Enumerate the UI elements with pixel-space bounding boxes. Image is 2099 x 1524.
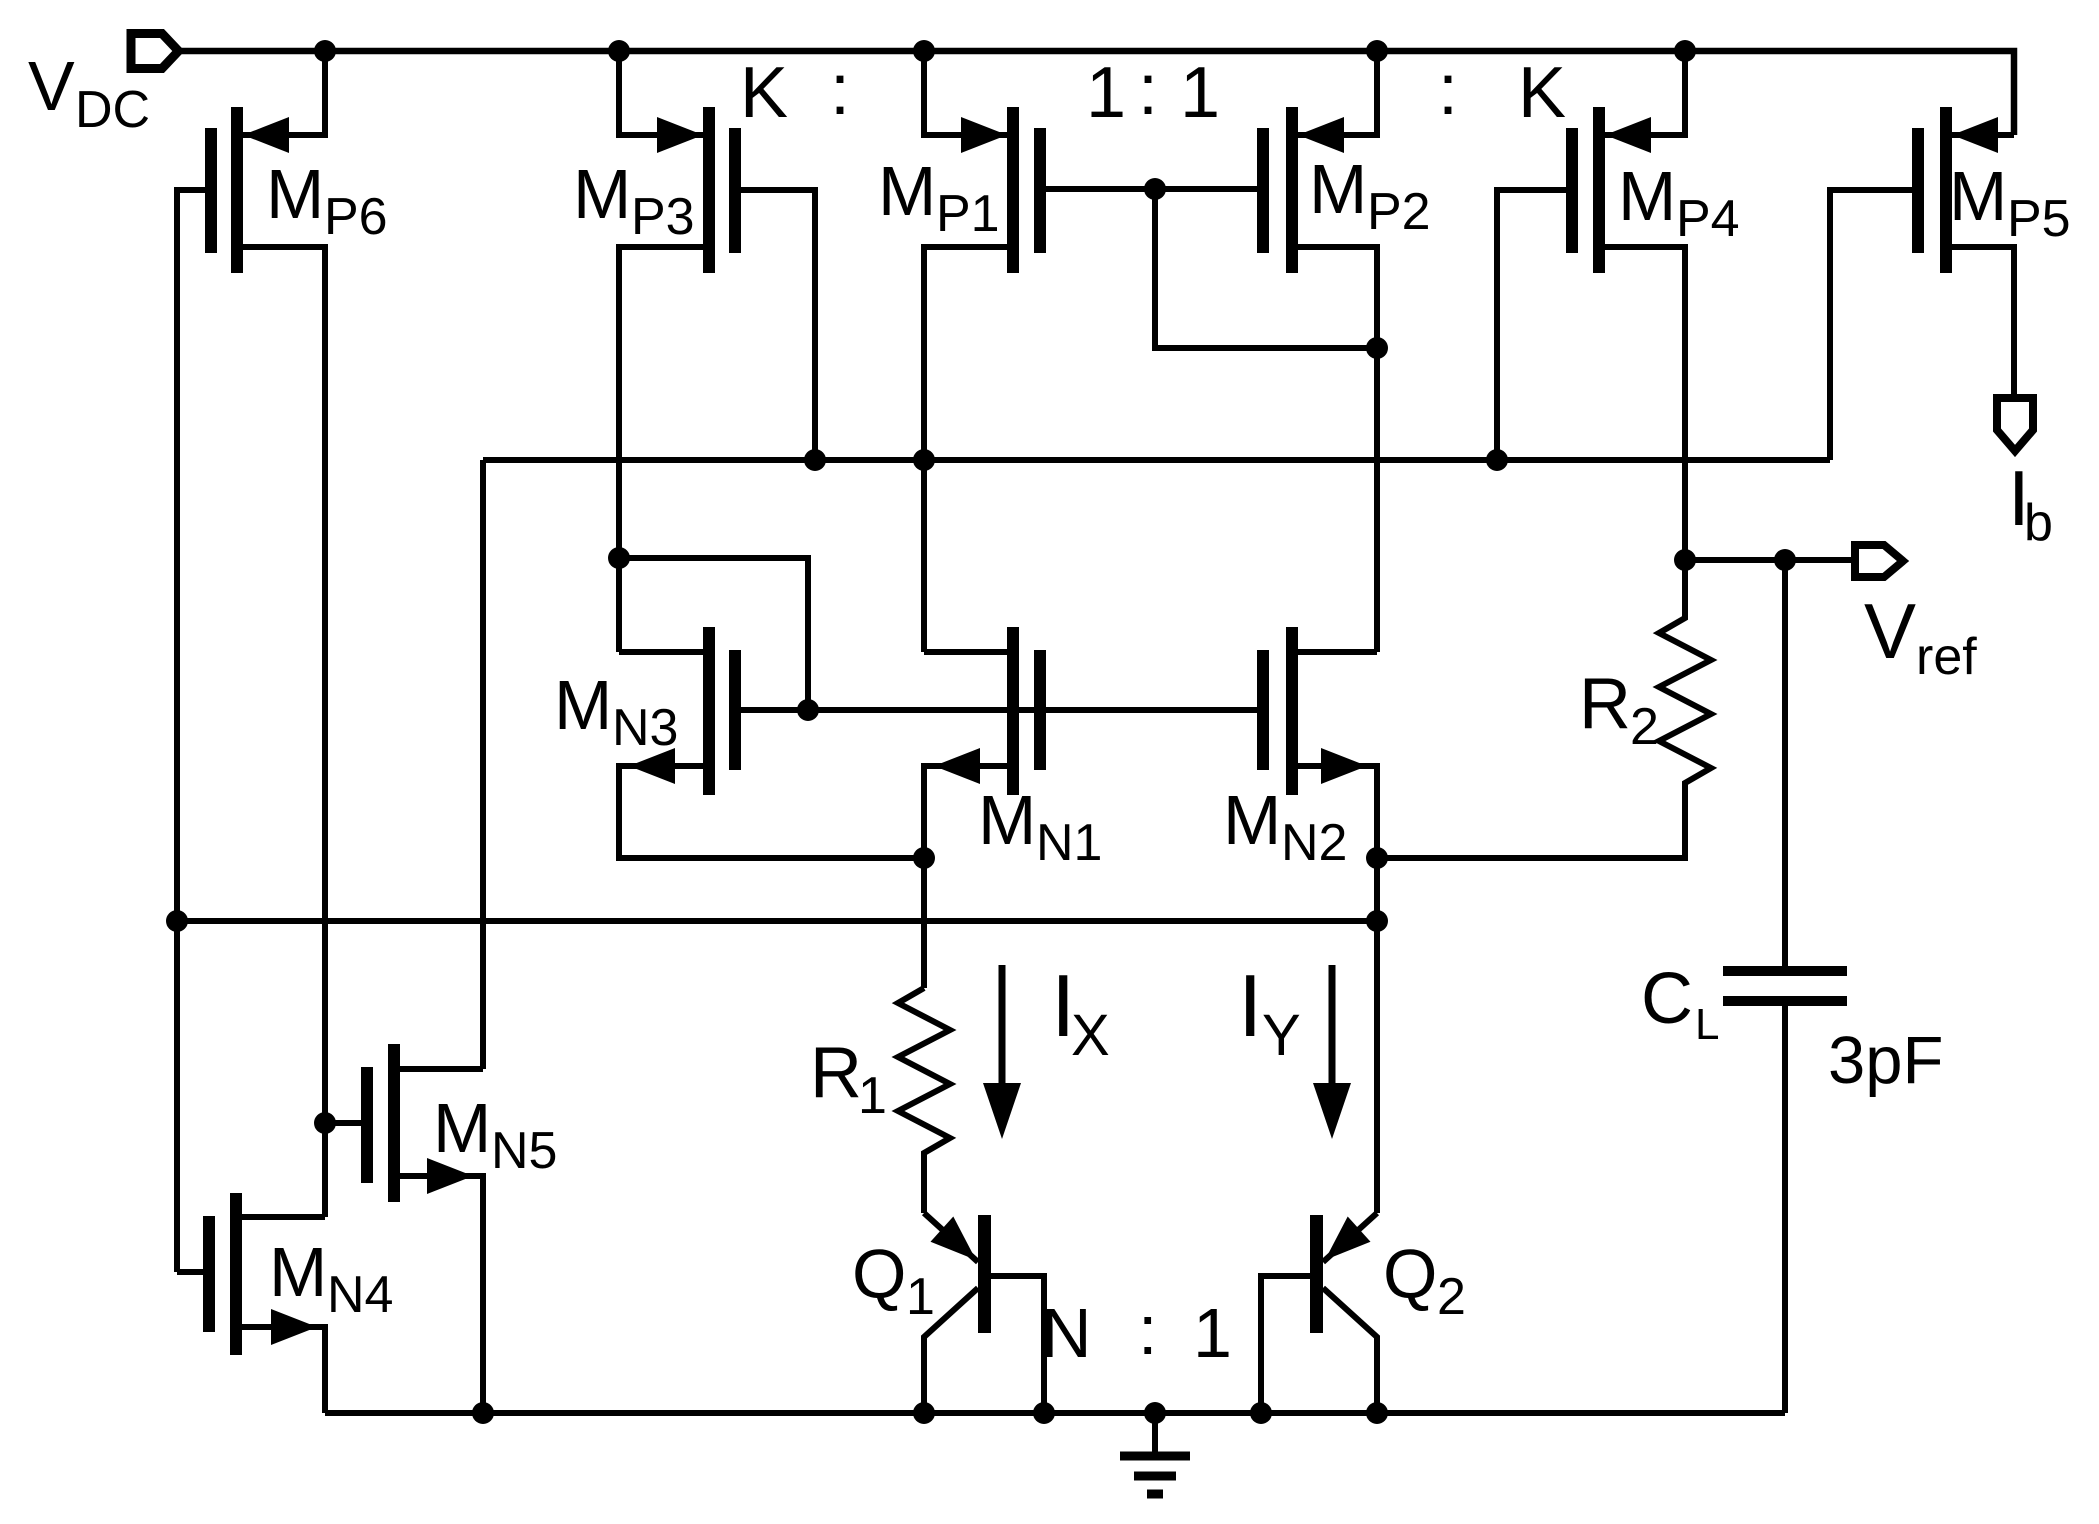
ground	[1120, 1413, 1190, 1494]
svg-text:M: M	[878, 152, 936, 230]
svg-text:I: I	[1238, 956, 1262, 1055]
svg-text:Q: Q	[1383, 1235, 1437, 1313]
svg-text:M: M	[1223, 781, 1281, 859]
port Vref	[1855, 545, 1977, 686]
node bias line dots	[804, 178, 1508, 471]
wire Vref lead	[1685, 557, 1851, 563]
transistor Q1	[852, 1213, 1044, 1413]
svg-text:N1: N1	[1036, 814, 1102, 872]
svg-text:M: M	[1618, 157, 1676, 235]
svg-text:M: M	[1309, 150, 1367, 228]
svg-text:M: M	[266, 155, 324, 233]
current arrow IX	[983, 956, 1110, 1139]
svg-text:P2: P2	[1367, 183, 1431, 241]
svg-text:V: V	[1864, 587, 1916, 675]
current arrow IY	[1238, 956, 1351, 1139]
wire PMOS gate bias line	[483, 460, 1830, 1069]
node MN5 gate dot	[314, 1112, 336, 1134]
svg-text::: :	[1138, 50, 1158, 130]
resistor R2	[1377, 560, 1711, 858]
svg-text:R: R	[810, 1033, 862, 1113]
transistor MN3	[554, 558, 1257, 858]
resistor R1	[810, 988, 950, 1213]
transistor MP5	[1830, 107, 2071, 460]
svg-text:L: L	[1695, 1000, 1719, 1049]
transistor MP6	[177, 51, 388, 1272]
port VDC	[28, 34, 179, 140]
svg-text:M: M	[554, 666, 612, 744]
svg-text:1: 1	[1180, 53, 1220, 133]
svg-text:1: 1	[1193, 1294, 1232, 1372]
wire ground rail	[325, 1410, 1785, 1416]
node source coupling dots	[166, 847, 1388, 932]
svg-text:M: M	[433, 1089, 491, 1167]
svg-text:N3: N3	[612, 699, 678, 757]
svg-text:ref: ref	[1916, 628, 1977, 686]
transistor MN5	[325, 1044, 557, 1413]
svg-text:M: M	[978, 781, 1036, 859]
svg-text:V: V	[28, 47, 75, 125]
svg-text:P3: P3	[631, 188, 695, 246]
svg-text::: :	[830, 50, 850, 130]
svg-text::: :	[1438, 50, 1458, 130]
svg-text:P4: P4	[1676, 190, 1740, 248]
svg-text:b: b	[2024, 494, 2053, 552]
node VDD junction dots	[314, 40, 1696, 62]
svg-text:P5: P5	[2007, 190, 2071, 248]
wire gate feedback line	[177, 918, 1377, 924]
svg-text:1: 1	[1086, 53, 1126, 133]
svg-text:2: 2	[1437, 1268, 1466, 1326]
svg-text:K: K	[740, 53, 788, 133]
svg-text:X: X	[1071, 1003, 1110, 1068]
transistor MN2	[1223, 627, 1377, 1213]
port Ib	[1997, 398, 2053, 552]
node Vref dots	[1674, 549, 1796, 571]
svg-text:3pF: 3pF	[1828, 1023, 1943, 1098]
svg-text:N5: N5	[491, 1122, 557, 1180]
transistor MN1	[924, 627, 1102, 988]
svg-text:C: C	[1641, 959, 1693, 1039]
svg-text:M: M	[269, 1233, 327, 1311]
svg-text:K: K	[1518, 53, 1566, 133]
svg-text:M: M	[1949, 157, 2007, 235]
svg-text::: :	[1138, 1291, 1157, 1369]
svg-text:2: 2	[1630, 698, 1659, 756]
transistor Q2	[1261, 1213, 1466, 1413]
transistor MP2	[1257, 51, 1431, 652]
transistor MP4	[1497, 51, 1740, 560]
node ground rail dots	[472, 1402, 1388, 1424]
transistor MP3	[573, 51, 815, 652]
svg-text:Q: Q	[852, 1235, 906, 1313]
label emitter ratio N : 1	[1041, 1291, 1232, 1372]
svg-text:Y: Y	[1262, 1003, 1301, 1068]
capacitor CL	[1641, 560, 1943, 1413]
wire VDD top rail	[181, 51, 2014, 135]
svg-text:M: M	[573, 155, 631, 233]
svg-text:N4: N4	[327, 1266, 393, 1324]
svg-text:P6: P6	[324, 188, 388, 246]
svg-text:1: 1	[906, 1268, 935, 1326]
svg-text:R: R	[1579, 664, 1631, 744]
transistor MN4	[177, 1193, 393, 1413]
svg-text:DC: DC	[75, 81, 150, 139]
transistor MP1	[878, 51, 1377, 652]
svg-text:1: 1	[858, 1067, 887, 1125]
svg-text:N: N	[1041, 1294, 1092, 1372]
svg-text:P1: P1	[936, 185, 1000, 243]
label mirror ratio K : 1 : 1 : K	[740, 50, 1566, 133]
node MN3 diode dots	[608, 547, 819, 721]
svg-text:N2: N2	[1281, 814, 1347, 872]
